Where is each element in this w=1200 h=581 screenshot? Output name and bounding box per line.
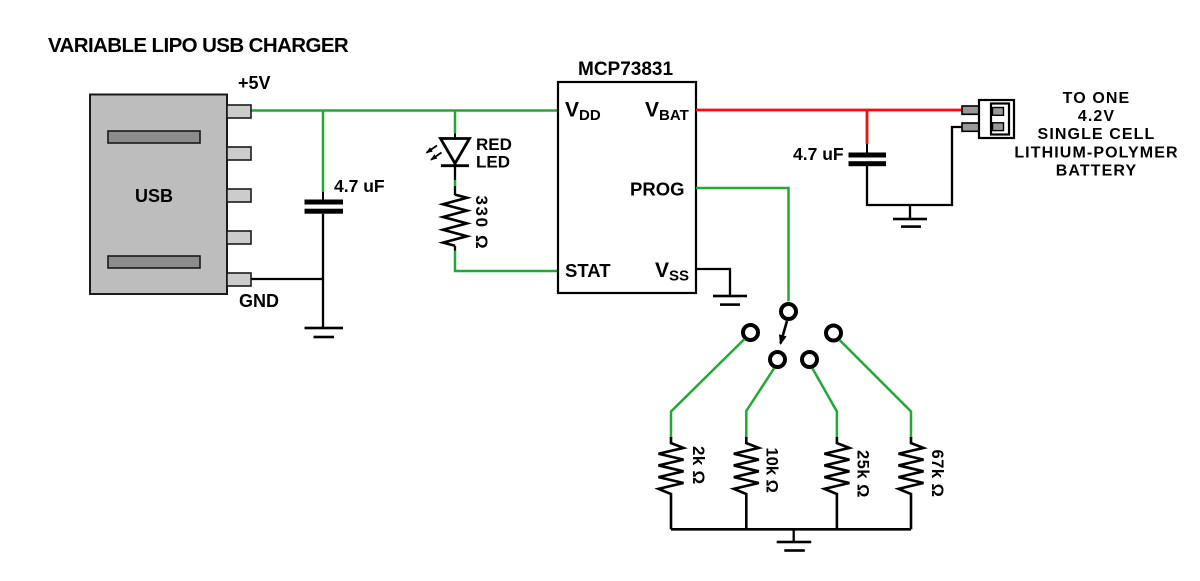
svg-text:4.7 uF: 4.7 uF [334,176,385,196]
svg-text:67k Ω: 67k Ω [928,450,946,498]
svg-text:GND: GND [239,291,279,311]
svg-text:330 Ω: 330 Ω [472,196,491,251]
svg-text:MCP73831: MCP73831 [578,59,673,80]
svg-text:SINGLE CELL: SINGLE CELL [1038,126,1156,143]
svg-text:4.7 uF: 4.7 uF [793,144,844,164]
svg-text:TO ONE: TO ONE [1063,90,1131,107]
svg-text:25k Ω: 25k Ω [854,450,872,498]
svg-text:RED: RED [476,135,512,154]
svg-text:PROG: PROG [630,179,684,200]
svg-text:10k Ω: 10k Ω [763,448,781,493]
svg-text:LED: LED [476,153,510,172]
svg-text:STAT: STAT [565,260,611,281]
svg-text:USB: USB [135,186,173,206]
svg-text:4.2V: 4.2V [1078,108,1115,125]
svg-text:+5V: +5V [238,73,271,93]
svg-text:BATTERY: BATTERY [1056,163,1137,180]
svg-text:VARIABLE LIPO USB CHARGER: VARIABLE LIPO USB CHARGER [48,34,349,57]
svg-text:2k Ω: 2k Ω [689,446,708,484]
svg-text:LITHIUM-POLYMER: LITHIUM-POLYMER [1014,144,1178,161]
